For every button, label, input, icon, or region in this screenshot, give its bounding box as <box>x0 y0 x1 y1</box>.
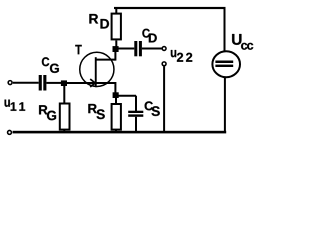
label u22 <box>171 50 176 57</box>
wire source vertical <box>114 82 116 94</box>
node gate junction dot <box>61 80 67 86</box>
wire Ucc bottom to rail <box>224 77 226 133</box>
wire RG lead down <box>63 86 65 105</box>
wire CS to rail <box>135 117 137 133</box>
ground terminal (u11 bottom) <box>8 130 12 134</box>
capacitor CG left plate <box>39 75 42 91</box>
wire drain junction to CD <box>118 48 134 50</box>
capacitor CD right plate <box>139 41 142 56</box>
wire source stub <box>96 82 116 84</box>
capacitor CS top plate <box>128 111 143 113</box>
wire source junction to CS <box>117 95 136 97</box>
capacitor CS bottom plate <box>128 114 143 116</box>
label T <box>75 45 81 54</box>
output terminal (u22 bottom) <box>162 62 166 66</box>
transistor T circle <box>80 52 114 86</box>
wire RS lead <box>115 97 117 104</box>
wire RG to rail <box>63 130 65 133</box>
label RG <box>39 105 47 114</box>
capacitor CG right plate <box>43 75 46 91</box>
resistor RS <box>112 104 121 130</box>
top rail wire <box>114 7 226 9</box>
wire u22 bottom terminal to rail <box>163 66 165 131</box>
Ucc DC bar bottom <box>215 65 233 67</box>
wire RD top lead <box>115 7 117 14</box>
wire CS top lead <box>135 96 137 111</box>
capacitor CD left plate <box>134 41 137 56</box>
voltage source Ucc circle <box>212 51 240 77</box>
wire input to CG <box>13 82 39 84</box>
node drain junction dot <box>113 46 119 52</box>
resistor RG <box>60 104 70 130</box>
wire drain stub <box>96 59 116 61</box>
transistor gate arrowhead <box>90 79 95 87</box>
label CS <box>145 101 153 110</box>
bottom rail wire <box>13 131 227 134</box>
wire CD to output terminal <box>142 48 162 50</box>
label CD <box>142 29 149 38</box>
transistor channel bar <box>95 57 97 87</box>
wire RD lead down <box>115 41 117 47</box>
Ucc DC bar top <box>215 61 233 64</box>
resistor RD <box>112 14 121 40</box>
label u11 <box>5 100 10 107</box>
label RS <box>88 104 96 113</box>
wire RS to rail <box>115 130 117 133</box>
wire CG to gate node <box>46 82 62 84</box>
wire drain vertical <box>114 48 116 61</box>
wire down to Ucc top <box>224 8 226 52</box>
label CG <box>42 57 49 66</box>
label RD <box>89 14 98 23</box>
label Ucc <box>232 34 241 45</box>
node source junction dot <box>113 92 119 98</box>
wire gate node to transistor gate <box>67 82 95 84</box>
input terminal (u11 top) <box>8 81 12 85</box>
output terminal (u22 top) <box>162 47 166 51</box>
